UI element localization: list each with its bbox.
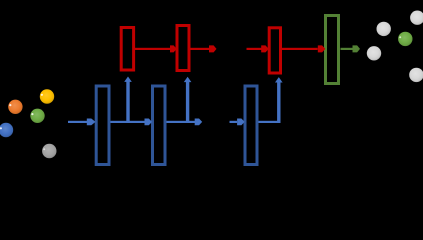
input token sphere (gray): [42, 144, 56, 158]
wire: blue riser arrow up into D3: [275, 77, 283, 123]
input token sphere (yellow): [40, 89, 54, 103]
output token sphere (white, top middle): [377, 22, 391, 36]
encoder cell E1 (blue box): [96, 86, 109, 165]
wire: blue arrow E2 onward (ellipsis): [167, 119, 203, 126]
wire: blue input arrow into E1: [68, 119, 96, 126]
encoder cell E3 (blue box): [245, 86, 257, 165]
decoder cell D1 (red box): [121, 28, 133, 71]
wire: blue segment E3 to riser: [259, 121, 280, 123]
output token sphere (white, bottom right): [409, 68, 423, 82]
wire: blue riser arrow up into D2: [184, 77, 192, 123]
wire: red arrow into D3: [247, 45, 269, 52]
decoder cell D2 (red box): [177, 26, 189, 71]
output token sphere (white, lower left): [367, 46, 381, 60]
input token sphere (orange): [8, 100, 22, 114]
wire: green output arrow: [341, 45, 361, 52]
wire: red arrow D2 onward (ellipsis): [191, 45, 217, 52]
encoder cell E2 (blue box): [153, 86, 166, 165]
input token sphere (green): [30, 109, 44, 123]
output layer (green box): [326, 16, 339, 84]
output token sphere (green): [398, 32, 412, 46]
input token sphere (blue): [0, 123, 13, 137]
wire: red arrow D1 to D2: [135, 45, 177, 52]
wire: blue arrow E1 to E2: [111, 119, 153, 126]
wire: red arrow D3 to output layer: [282, 45, 325, 52]
output token sphere (white, top right): [410, 11, 423, 25]
decoder cell D3 (red box): [269, 28, 280, 73]
wire: blue arrow into E3: [230, 119, 245, 126]
wire: blue riser arrow up into D1: [124, 77, 132, 124]
